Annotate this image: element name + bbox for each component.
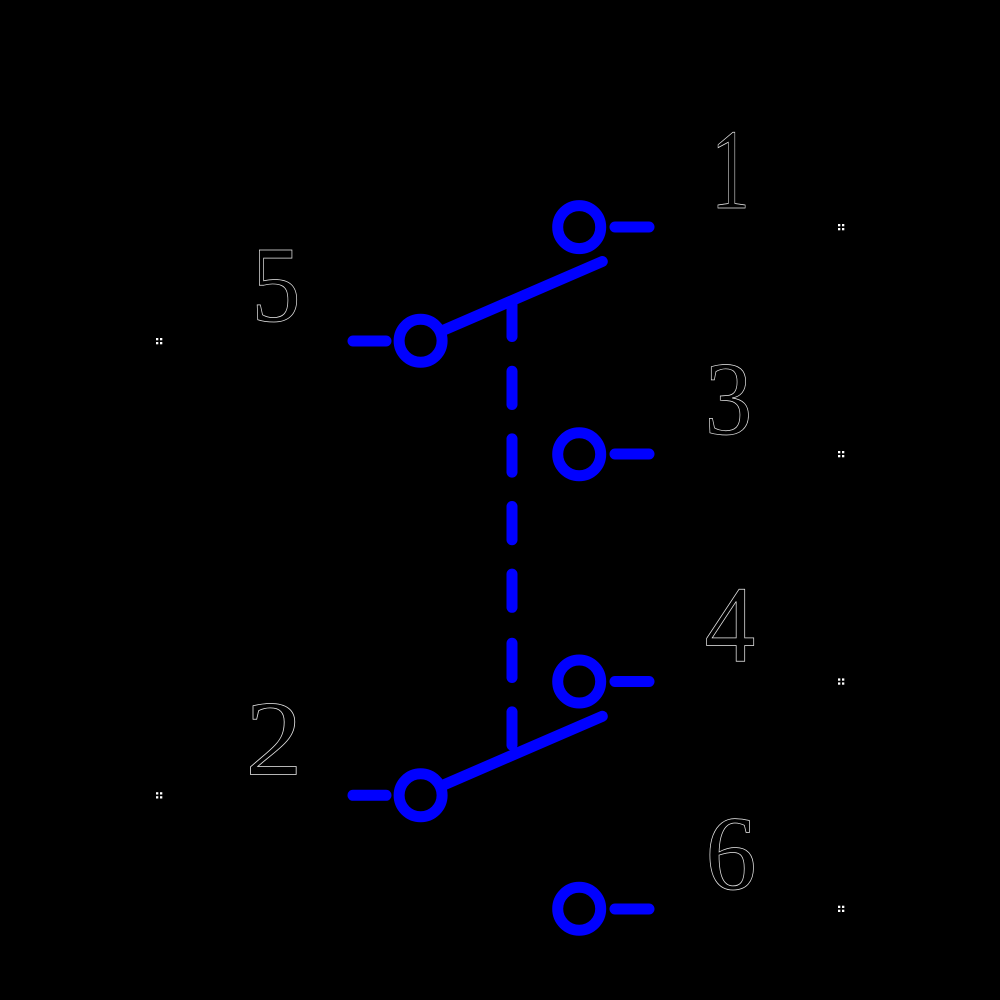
pin 3 terminal circle: [558, 433, 601, 476]
mechanical linkage dash 7 (joins pole B lever): [507, 712, 518, 745]
unconnected-pin marker right of pin 3: [838, 451, 844, 457]
wire stub pin 5: [353, 336, 386, 347]
unconnected-pin marker right of pin 1: [838, 224, 844, 230]
switch lever pole A (from pin 5 toward pin 1): [444, 262, 602, 331]
unconnected-pin marker left of pin 2: [156, 792, 162, 798]
pin 2 terminal circle (common, pole B): [399, 774, 442, 817]
mechanical linkage dashed line segment 1 (joins pole A lever): [507, 301, 518, 337]
mechanical linkage dash 3: [507, 439, 518, 472]
svg-text:6: 6: [705, 794, 756, 912]
wire stub pin 1: [615, 222, 649, 233]
unconnected-pin marker right of pin 6: [838, 906, 844, 912]
svg-text:5: 5: [251, 226, 300, 345]
unconnected-pin marker left of pin 5: [156, 338, 162, 344]
wire stub pin 2: [353, 790, 386, 801]
svg-text:3: 3: [705, 340, 752, 457]
wire stub pin 4: [615, 676, 649, 687]
svg-text:2: 2: [246, 678, 303, 797]
svg-text:4: 4: [705, 564, 756, 685]
pin 6 terminal circle: [558, 887, 601, 930]
pin 1 terminal circle: [558, 206, 601, 249]
svg-text:1: 1: [711, 107, 750, 234]
unconnected-pin marker right of pin 4: [838, 678, 844, 684]
mechanical linkage dash 6: [507, 643, 518, 677]
pin 4 terminal circle: [558, 660, 601, 703]
wire stub pin 3: [615, 449, 649, 460]
switch lever pole B (from pin 2 toward pin 4): [444, 716, 602, 785]
mechanical linkage dash 2: [507, 371, 518, 404]
mechanical linkage dash 4: [507, 507, 518, 540]
pin 5 terminal circle (common, pole A): [399, 319, 442, 362]
wire stub pin 6: [615, 904, 649, 915]
mechanical linkage dash 5: [507, 574, 518, 607]
